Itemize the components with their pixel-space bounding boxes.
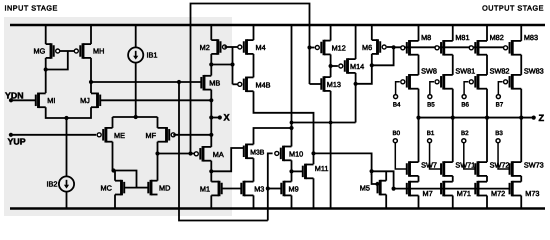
- wire W-bottom feedback (under the bottom): [179, 82, 268, 221]
- svg-text:M10: M10: [289, 150, 303, 158]
- wire M6 gate to gate rail: [387, 46, 394, 48]
- wire M14 drain vertical: [355, 73, 357, 123]
- transistor M6: [376, 39, 379, 55]
- svg-text:B6: B6: [461, 101, 469, 108]
- wire to M12 gate: [310, 47, 315, 49]
- current source IB1: [128, 47, 143, 62]
- node M5 gate-drain tie: [375, 182, 379, 186]
- wire B1 to SW71 gate: [430, 143, 442, 169]
- svg-text:MF: MF: [146, 132, 157, 140]
- transistor M5: [379, 180, 382, 196]
- svg-text:M13: M13: [327, 81, 341, 89]
- wire M72 source to rail: [486, 196, 488, 209]
- wire SW7 drain to Z rail: [418, 118, 420, 163]
- output rail node Z wire: [419, 117, 534, 119]
- positive supply rail: [10, 24, 545, 26]
- transistor M72: [477, 181, 480, 197]
- terminal B1: [428, 139, 432, 143]
- terminal B2: [462, 139, 466, 143]
- input stage shaded region: [4, 17, 232, 216]
- node MF/MD drain - MA gate net: [155, 151, 159, 155]
- wire gate column vertical: [232, 47, 234, 84]
- svg-text:MC: MC: [101, 184, 112, 192]
- svg-text:M9: M9: [289, 185, 299, 193]
- svg-text:SW82: SW82: [490, 68, 510, 76]
- node MA drain / M1 drain: [209, 169, 213, 173]
- transistor MD: [150, 180, 153, 196]
- svg-text:B5: B5: [427, 101, 435, 108]
- node M10/M9 drain - M11 gate: [289, 169, 293, 173]
- svg-text:Z: Z: [539, 113, 545, 124]
- node M82 gate tap: [469, 45, 473, 49]
- svg-text:M7: M7: [423, 190, 433, 198]
- terminal B5: [428, 95, 432, 99]
- transistor M8: [408, 40, 411, 56]
- wire SW73 source to M73: [520, 176, 522, 182]
- node ME drain / MC mirror: [111, 168, 115, 172]
- wire YDN to MI gate: [11, 99, 36, 101]
- node M14 drain: [354, 82, 358, 86]
- transistor M1: [218, 181, 221, 197]
- node M5 drain / M7 gate rail: [392, 187, 396, 191]
- wire SW72 drain to Z rail: [486, 118, 488, 163]
- svg-text:B3: B3: [495, 130, 503, 137]
- node M6 drain diode tie: [370, 63, 374, 67]
- transistor M4: [245, 39, 248, 55]
- wire M3 source to rail: [253, 195, 255, 208]
- wire M10 drain down to M9: [291, 160, 293, 181]
- node W-top terminus: [188, 151, 192, 155]
- wire SW73 drain to Z rail: [520, 118, 522, 163]
- svg-text:MG: MG: [34, 48, 46, 56]
- wire M8 common gate rail: [394, 46, 508, 48]
- svg-text:M11: M11: [315, 165, 329, 173]
- svg-text:YUP: YUP: [8, 136, 26, 146]
- wire W-top feedback (over the top): [191, 4, 310, 154]
- wire M1-M3 gate tie: [222, 188, 242, 190]
- svg-text:INPUT STAGE: INPUT STAGE: [5, 5, 58, 13]
- node M81 gate tap: [434, 45, 438, 49]
- transistor M12: [323, 40, 326, 56]
- wire A: M4B drain to M11 drain: [254, 91, 314, 164]
- svg-text:SW8: SW8: [421, 68, 437, 76]
- input terminal YUP: [9, 133, 13, 137]
- transistor ME: [104, 127, 107, 143]
- transistor SW72: [477, 161, 480, 177]
- transistor MF: [165, 127, 168, 143]
- wire M11 drain node to M5 branch: [314, 153, 372, 175]
- wire B: M3B drain to rail stub: [254, 128, 292, 144]
- wire M82 drain to SW82: [486, 55, 488, 75]
- svg-text:M14: M14: [350, 63, 364, 71]
- transistor SW71: [442, 161, 445, 177]
- svg-text:OUTPUT STAGE: OUTPUT STAGE: [482, 5, 544, 13]
- wire MG-MH gate tie: [60, 50, 74, 52]
- wire MH drain down to MJ: [90, 58, 92, 93]
- wire MF gate to node X stem: [173, 134, 211, 136]
- wire M5 gate feed from bias node: [372, 171, 378, 184]
- svg-text:IB1: IB1: [147, 52, 158, 60]
- transistor MJ: [96, 93, 99, 109]
- svg-text:MH: MH: [93, 48, 104, 56]
- svg-text:B2: B2: [461, 130, 469, 137]
- svg-text:SW83: SW83: [524, 68, 544, 76]
- transistor SW81: [442, 74, 445, 90]
- wire M83 source to rail: [520, 25, 522, 41]
- wire M14 source to rail: [355, 25, 357, 59]
- current source IB2: [59, 176, 74, 191]
- negative supply rail: [10, 207, 545, 209]
- svg-text:SW81: SW81: [455, 68, 475, 76]
- wire M12 drain to M13: [330, 54, 332, 77]
- wire to M4B gate: [233, 83, 240, 85]
- svg-text:M72: M72: [491, 190, 505, 198]
- transistor M81: [442, 40, 445, 56]
- svg-text:B7: B7: [496, 101, 504, 108]
- node MH drain / MB gate: [89, 80, 93, 84]
- wire M73 source to rail: [520, 196, 522, 209]
- svg-text:M83: M83: [524, 34, 538, 42]
- wire MD drain up to MF: [157, 142, 159, 181]
- transistor MI: [37, 93, 40, 109]
- transistor M14: [346, 58, 349, 74]
- node MG gate-drain tie: [44, 67, 48, 71]
- wire M6 source to rail: [371, 25, 373, 40]
- wire B0 to SW7 gate: [395, 143, 407, 169]
- transistor MB: [203, 75, 206, 91]
- transistor MC: [120, 180, 123, 196]
- wire SW8 drain to Z rail: [418, 89, 420, 118]
- node M3B drain tap: [289, 126, 293, 130]
- transistor SW83: [511, 74, 514, 90]
- transistor M2: [216, 39, 219, 55]
- wire M8 source to rail: [418, 25, 420, 41]
- input terminal YDN: [9, 98, 13, 102]
- svg-text:M12: M12: [332, 45, 346, 53]
- transistor MA: [202, 146, 205, 162]
- svg-text:M1: M1: [200, 185, 210, 193]
- svg-text:MI: MI: [47, 97, 55, 105]
- wire B5 to SW81 gate: [430, 82, 434, 95]
- transistor M7: [408, 181, 411, 197]
- transistor M83: [511, 40, 514, 56]
- transistor MH: [82, 43, 85, 59]
- transistor M71: [442, 181, 445, 197]
- wire ME drain to MC: [112, 142, 114, 171]
- svg-text:SW71: SW71: [455, 161, 475, 169]
- transistor M10: [282, 146, 285, 162]
- wire M1 source to rail: [210, 195, 212, 208]
- svg-text:B1: B1: [427, 130, 435, 137]
- svg-text:IB2: IB2: [47, 181, 58, 189]
- transistor M9: [283, 181, 286, 197]
- wire M2/M4 gate tie: [225, 46, 240, 48]
- wire M14 gate feed: [331, 65, 338, 67]
- wire SW82 drain to Z rail: [486, 89, 488, 118]
- svg-text:M6: M6: [362, 44, 372, 52]
- svg-text:M3: M3: [254, 185, 264, 193]
- wire YUP to ME gate: [11, 134, 96, 136]
- node M3/M9 gate net with W-bottom: [266, 186, 270, 190]
- wire MA drain to M1: [210, 161, 212, 182]
- svg-text:M81: M81: [455, 34, 469, 42]
- node X branch: [209, 115, 213, 119]
- output terminal Z: [532, 116, 536, 120]
- wire B4 to SW8 gate: [396, 82, 400, 95]
- node IB1 tail: [134, 115, 138, 119]
- wire MG drain down to MI: [45, 58, 47, 93]
- wire MI source to tail node: [46, 107, 67, 118]
- svg-text:MD: MD: [159, 184, 170, 192]
- wire SW71 source to M71: [452, 176, 454, 182]
- transistor M82: [477, 40, 480, 56]
- svg-text:M4: M4: [256, 44, 266, 52]
- wire M14 drain to M6 drain: [356, 54, 372, 84]
- wire M11 source to rail: [313, 178, 315, 208]
- wire M81 source to rail: [452, 25, 454, 41]
- wire M12 source to rail: [330, 25, 332, 41]
- wire M10 source stub to rail: [291, 25, 293, 147]
- transistor SW7: [408, 161, 411, 177]
- wire P-pair tail: [113, 116, 158, 118]
- wire M6 diode connection to gate rail: [372, 47, 394, 65]
- svg-text:B4: B4: [393, 101, 401, 108]
- wire M7 source to rail: [418, 196, 420, 209]
- wire MG source to rail: [45, 25, 47, 44]
- wire M7 common gate rail: [394, 188, 511, 190]
- wire 122.5 tie to VDD stub: [292, 122, 356, 124]
- node MB drain: [209, 62, 213, 66]
- wire SW71 drain to Z rail: [452, 118, 454, 163]
- svg-text:M4B: M4B: [256, 82, 271, 90]
- wire B6 to SW82 gate: [464, 82, 468, 95]
- wire SW83 drain to Z rail: [520, 89, 522, 118]
- node M6/M8 gate rail: [392, 45, 396, 49]
- wire M2 drain to MB: [210, 54, 212, 76]
- transistor M11: [304, 164, 307, 180]
- svg-text:MJ: MJ: [80, 97, 90, 105]
- wire MJ gate to node X stem: [100, 99, 211, 101]
- wire MJ source to tail node: [67, 107, 92, 118]
- wire M4 source to rail: [253, 25, 255, 40]
- svg-text:M82: M82: [490, 34, 504, 42]
- wire SW81 drain to Z rail: [452, 89, 454, 118]
- transistor M73: [511, 181, 514, 197]
- svg-text:X: X: [224, 112, 231, 123]
- wire gate net to M9: [268, 188, 282, 190]
- transistor M4B: [245, 77, 248, 93]
- wire MB source down (node X stem): [210, 90, 212, 147]
- wire MH source to rail: [90, 25, 92, 44]
- wire MC-MD gate tie: [137, 187, 149, 189]
- svg-text:M2: M2: [200, 44, 210, 52]
- wire B2 to SW72 gate: [464, 143, 476, 169]
- transistor SW8: [408, 74, 411, 90]
- wire MA gate net: [158, 153, 195, 155]
- wire M82 source to rail: [486, 25, 488, 41]
- wire MH drain to MB gate: [91, 81, 201, 83]
- wire M5 drain to M7 gate rail: [385, 171, 387, 180]
- wire M4 drain to M4B: [253, 54, 255, 78]
- wire M2 source to rail: [210, 25, 212, 40]
- wire MC source to rail: [114, 195, 116, 209]
- svg-text:M73: M73: [525, 190, 539, 198]
- wire M3B source to M3 drain: [253, 158, 255, 181]
- wire M13 source to y=122.5 wire: [330, 91, 332, 209]
- terminal B6: [462, 95, 466, 99]
- terminal B7: [496, 95, 500, 99]
- svg-text:MB: MB: [209, 80, 220, 88]
- wire to M11 gate: [292, 170, 303, 172]
- svg-text:YDN: YDN: [5, 90, 24, 100]
- svg-text:ME: ME: [114, 132, 125, 140]
- svg-text:B0: B0: [393, 130, 401, 137]
- svg-text:M71: M71: [457, 190, 471, 198]
- svg-text:M3B: M3B: [250, 148, 264, 156]
- wire MB drain to gate column: [211, 64, 232, 66]
- node N-pair tail: [64, 116, 68, 120]
- terminal B4: [394, 95, 398, 99]
- transistor MG: [50, 43, 53, 59]
- wire B7 to SW83 gate: [498, 82, 502, 95]
- svg-text:SW72: SW72: [490, 161, 510, 169]
- svg-text:MA: MA: [213, 151, 224, 159]
- wire B3 to SW73 gate: [498, 143, 510, 169]
- wire SW7 source to M7: [418, 176, 420, 182]
- node M11 drain / wire A: [311, 151, 315, 155]
- transistor M3: [243, 181, 246, 197]
- svg-text:M8: M8: [421, 34, 431, 42]
- wire M83 drain to SW83: [520, 55, 522, 75]
- transistor M3B: [245, 144, 248, 160]
- wire M10 gate to M3/M9 gate net and W-bottom: [268, 153, 273, 220]
- wire M1 drain to M3B gate: [211, 148, 244, 171]
- svg-text:SW73: SW73: [524, 161, 544, 169]
- wire SW72 source to M72: [486, 176, 488, 182]
- transistor SW82: [477, 74, 480, 90]
- node M14 gate tap: [329, 64, 333, 68]
- wire M5 source to rail: [385, 195, 387, 209]
- terminal B0: [393, 139, 397, 143]
- wire M71 source to rail: [452, 196, 454, 209]
- svg-text:M5: M5: [360, 185, 370, 193]
- wire M8 drain to SW8: [418, 55, 420, 75]
- wire M9 source to rail: [291, 195, 293, 208]
- terminal B3: [496, 139, 500, 143]
- transistor M13: [323, 76, 326, 92]
- node W-bottom tap: [177, 80, 181, 84]
- wire M81 drain to SW81: [452, 55, 454, 75]
- transistor SW73: [511, 161, 514, 177]
- node M12/M13 gate (W-top): [307, 45, 311, 49]
